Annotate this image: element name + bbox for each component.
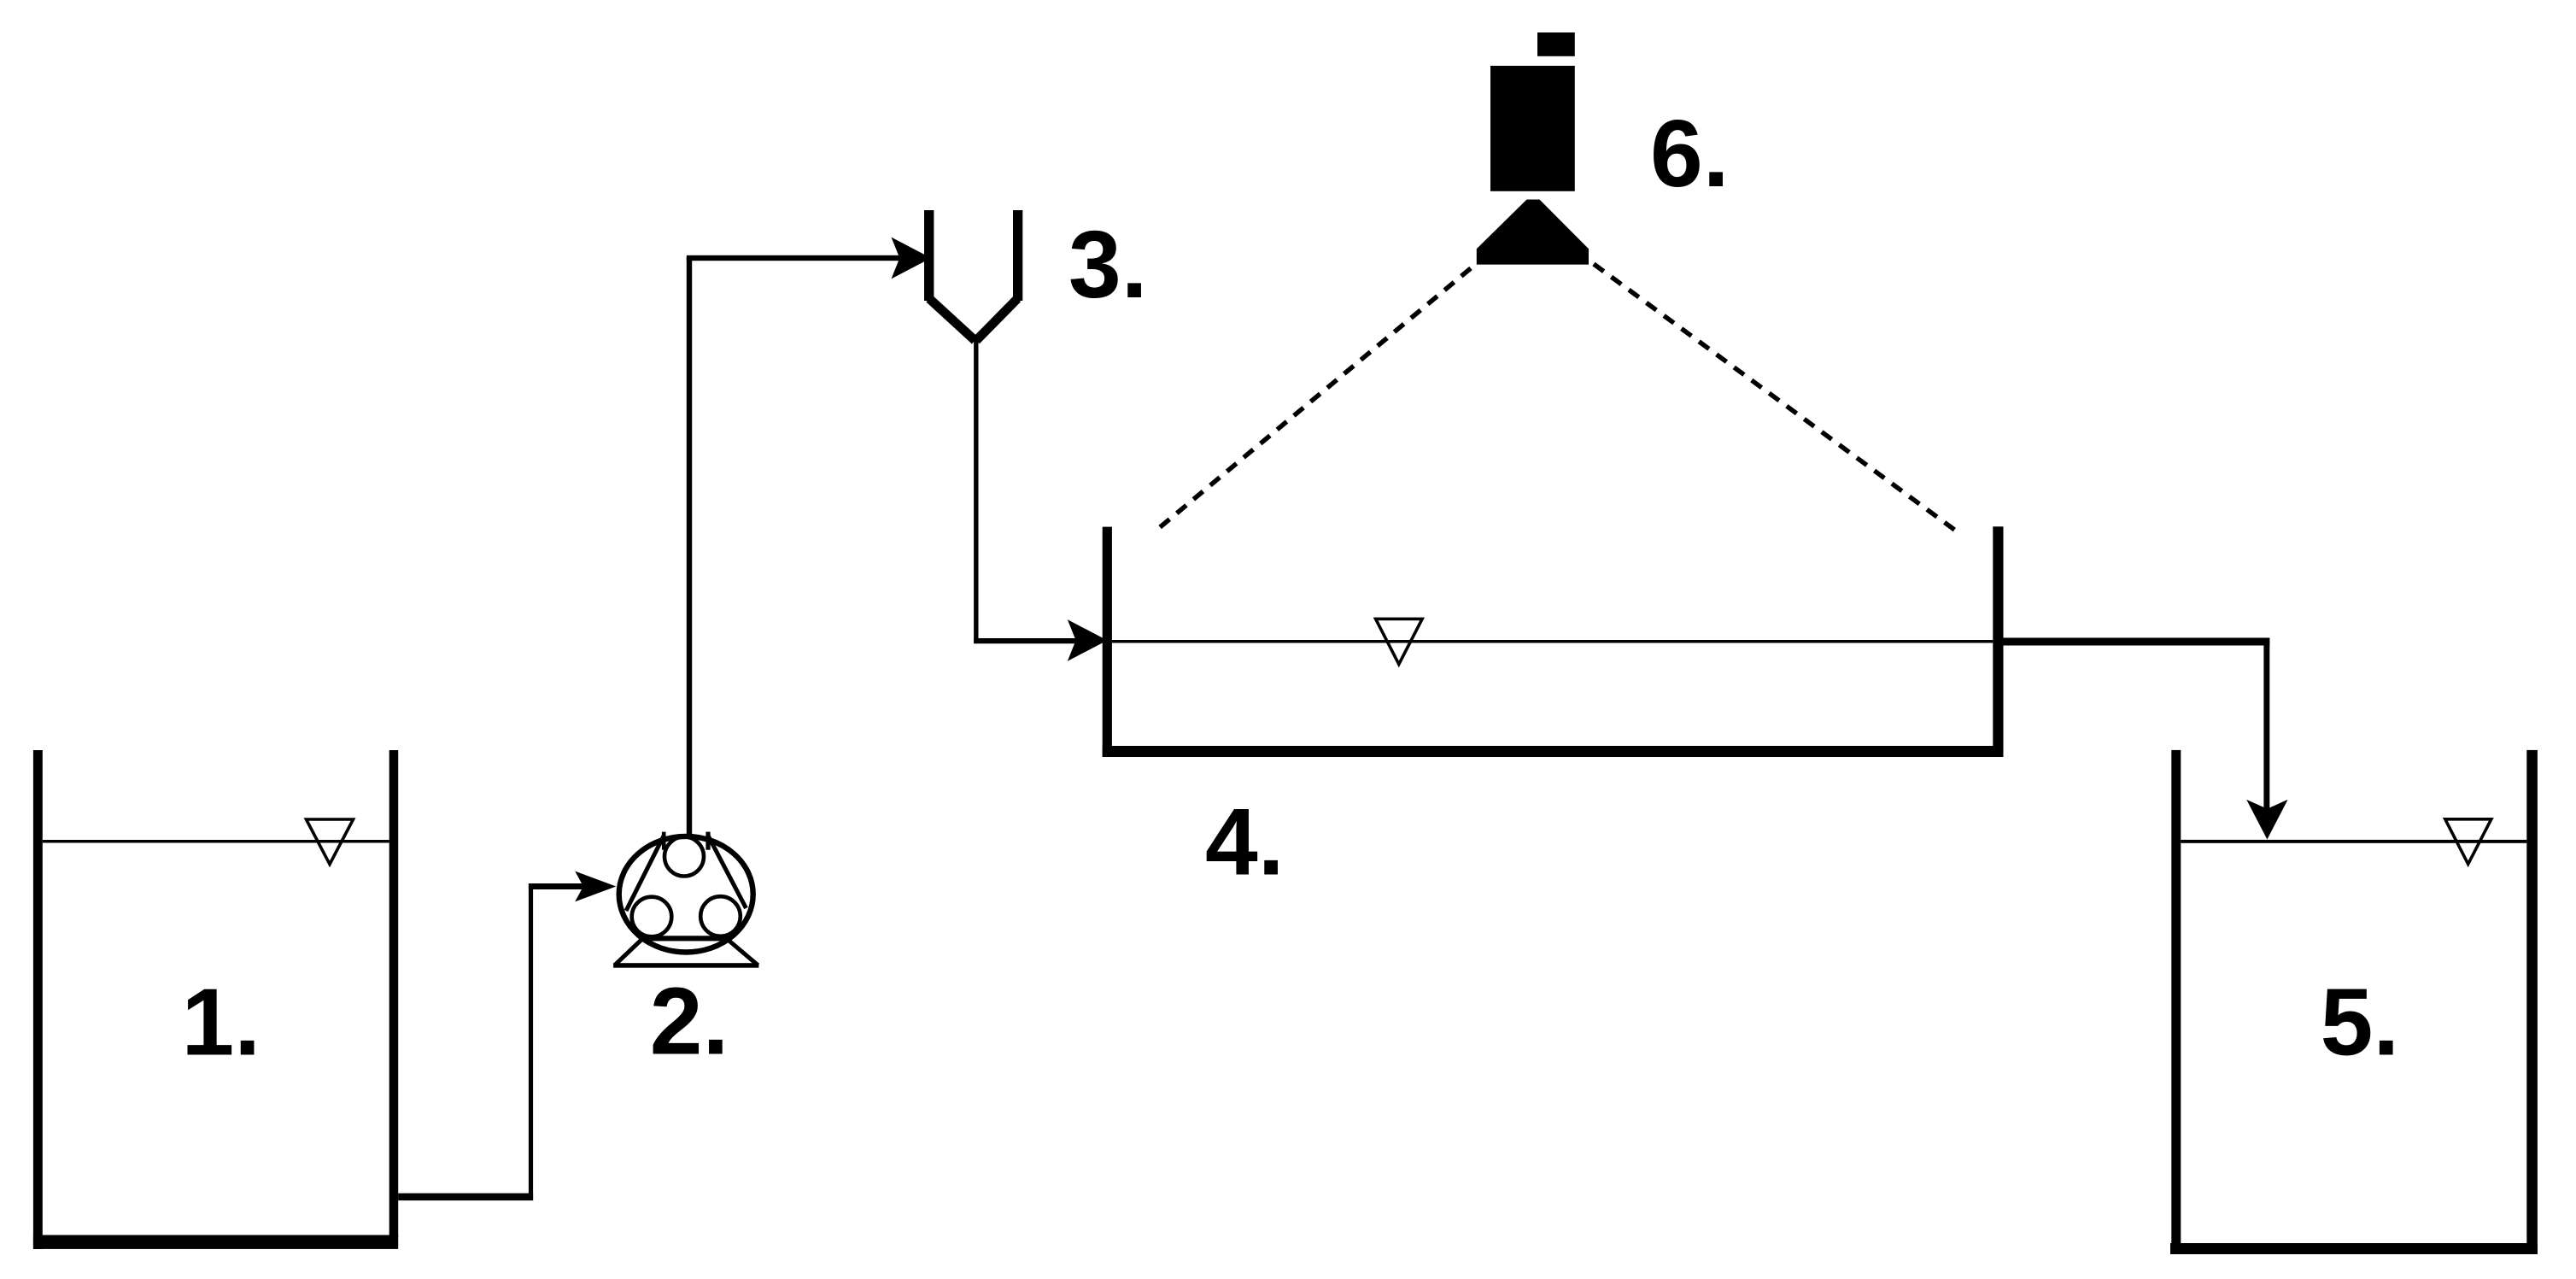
- pump U2 housing circle: [619, 836, 753, 953]
- tank 5 left wall: [2171, 750, 2181, 1254]
- pump stand right leg: [726, 938, 758, 965]
- pump rotor left slant line: [626, 836, 664, 911]
- tank 5 water line: [2181, 840, 2526, 843]
- camera field-of-view left dashed line: [1154, 268, 1471, 532]
- pump bottom-left roller: [632, 897, 672, 937]
- svg-text:6.: 6.: [1650, 101, 1730, 207]
- funnel F3 right slant: [976, 299, 1017, 341]
- svg-text:1.: 1.: [182, 969, 261, 1075]
- pump chord line: [642, 936, 728, 941]
- tank 5 water level symbol: [2445, 819, 2491, 865]
- pump rotor right slant line: [708, 836, 746, 908]
- arrowhead into tank 5: [2246, 800, 2287, 840]
- funnel F3 left wall: [924, 210, 934, 301]
- pipe flume to tank5, horizontal segment: [2004, 638, 2270, 646]
- pipe pump to funnel, horizontal segment: [687, 255, 902, 261]
- pump rotor right tick: [705, 832, 710, 850]
- pipe flume to tank5, vertical drop: [2263, 638, 2269, 810]
- tank 1 left wall: [33, 750, 43, 1249]
- svg-text:3.: 3.: [1068, 212, 1148, 318]
- svg-text:4.: 4.: [1205, 789, 1285, 895]
- camera U6 viewfinder block: [1537, 32, 1575, 56]
- funnel F3 left slant: [929, 299, 975, 341]
- label 3.: [1068, 212, 1148, 318]
- svg-text:5.: 5.: [2321, 970, 2400, 1076]
- pipe pump to funnel, vertical segment: [687, 257, 692, 835]
- tank 1 bottom: [33, 1235, 398, 1249]
- svg-text:2.: 2.: [650, 969, 729, 1075]
- pump top roller: [664, 837, 704, 877]
- tank 5 bottom: [2170, 1243, 2538, 1254]
- funnel F3 right wall: [1013, 210, 1022, 301]
- funnel stem pipe: [974, 338, 978, 642]
- tank 1 right wall: [389, 750, 399, 1237]
- flume 4 left wall: [1103, 527, 1112, 757]
- pipe tank1 to pump, top horizontal segment: [529, 883, 585, 889]
- tank 5 right wall: [2526, 750, 2538, 1254]
- flume water line: [1112, 640, 1993, 643]
- camera U6 lens cone: [1477, 200, 1589, 265]
- pump bottom-right roller: [700, 896, 741, 936]
- label 2.: [650, 969, 729, 1075]
- flume 4 bottom: [1103, 746, 2004, 757]
- label 5.: [2321, 970, 2400, 1076]
- pipe tank1 to pump, bottom horizontal segment: [398, 1194, 533, 1201]
- pump stand left leg: [615, 938, 644, 965]
- camera field-of-view right dashed line: [1594, 264, 1957, 531]
- tank 1 water line: [43, 840, 389, 843]
- label 6.: [1650, 101, 1730, 207]
- pipe funnel to flume, horizontal segment: [974, 638, 1077, 643]
- arrowhead into funnel: [892, 238, 932, 279]
- pipe tank1 to pump, vertical riser: [529, 883, 533, 1200]
- pump stand base: [613, 963, 758, 968]
- arrowhead into pump: [575, 871, 616, 902]
- arrowhead into flume: [1068, 619, 1108, 661]
- label 4.: [1205, 789, 1285, 895]
- flume 4 right wall: [1993, 526, 2003, 757]
- flume water level symbol: [1376, 619, 1423, 664]
- tank 1 water level symbol: [307, 819, 354, 865]
- camera U6 body: [1490, 66, 1575, 191]
- pump rotor left tick: [662, 832, 666, 850]
- label 1.: [182, 969, 261, 1075]
